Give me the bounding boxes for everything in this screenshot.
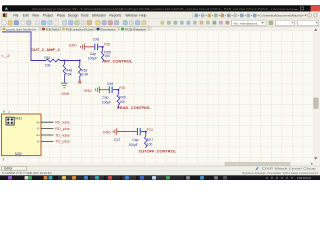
svg-text:Editor: Editor xyxy=(4,167,13,171)
svg-text:Tools: Tools xyxy=(81,14,89,18)
svg-text:100: 100 xyxy=(147,142,153,146)
svg-text:Place: Place xyxy=(57,14,66,18)
svg-text:CX8: CX8 xyxy=(93,37,100,41)
svg-text:TD_noise: TD_noise xyxy=(55,133,70,137)
svg-text:CX7: CX7 xyxy=(114,138,121,142)
svg-text:100pF: 100pF xyxy=(102,100,111,104)
svg-text:10K: 10K xyxy=(45,63,52,67)
svg-text:PCB_resistive DcLink: PCB_resistive DcLink xyxy=(66,28,93,32)
svg-text:100pF: 100pF xyxy=(88,56,97,60)
svg-text:prush_free NoiSeGe: prush_free NoiSeGe xyxy=(6,28,36,32)
svg-text:r,_2: r,_2 xyxy=(1,54,10,58)
svg-text:M32: M32 xyxy=(15,152,22,156)
svg-text:PEAK_CONTROL: PEAK_CONTROL xyxy=(117,106,151,110)
svg-text:Cap: Cap xyxy=(102,96,108,100)
svg-text:CX6: CX6 xyxy=(107,82,114,86)
svg-text:100pF: 100pF xyxy=(129,143,138,147)
svg-text:4:05 PM 6/1: 4:05 PM 6/1 xyxy=(297,176,312,180)
svg-text:10K: 10K xyxy=(66,73,73,77)
svg-text:Window: Window xyxy=(125,14,138,18)
svg-text:RX6: RX6 xyxy=(119,95,126,99)
svg-text:R54: R54 xyxy=(44,56,50,60)
svg-text:DXP Mask Level Clear: DXP Mask Level Clear xyxy=(262,167,316,171)
svg-text:PCB1.PcbDoc: PCB1.PcbDoc xyxy=(46,28,60,32)
svg-text:A+: A+ xyxy=(36,120,40,124)
svg-text:Edit: Edit xyxy=(23,14,29,18)
svg-text:PCB Release: PCB Release xyxy=(125,28,146,32)
svg-text:P25: P25 xyxy=(119,86,125,90)
svg-text:Cap: Cap xyxy=(132,138,138,142)
svg-text:K-: K- xyxy=(37,127,40,131)
svg-text:Altium Designer (Summer 09) -: Altium Designer (Summer 09) - C:\Users\k… xyxy=(32,7,294,11)
svg-text:P24: P24 xyxy=(147,128,153,132)
svg-text:GND: GND xyxy=(61,92,69,96)
svg-text:File: File xyxy=(13,14,19,18)
svg-text:GND: GND xyxy=(84,89,92,93)
svg-text:INT_CONTROL: INT_CONTROL xyxy=(104,59,133,63)
svg-text:Design: Design xyxy=(68,14,79,18)
svg-text:Help: Help xyxy=(139,14,146,18)
svg-text:RD_noise: RD_noise xyxy=(55,121,70,125)
svg-text:CUTOFF_CONTROL: CUTOFF_CONTROL xyxy=(139,149,177,153)
svg-text:X:10580.779 Y:498.437 Grid: X:10580.779 Y:498.437 Grid:10 xyxy=(2,171,52,175)
svg-text:View: View xyxy=(32,14,40,18)
svg-text:System Design Compiler SCH: System Design Compiler SCH Help Instrume… xyxy=(242,171,319,175)
svg-text:Simulator: Simulator xyxy=(92,14,107,18)
svg-text:A+: A+ xyxy=(36,133,40,137)
svg-text:3.3K: 3.3K xyxy=(81,73,89,77)
svg-text:No Variations: No Variations xyxy=(234,21,259,25)
svg-text:Reports: Reports xyxy=(109,14,121,18)
svg-text:K-: K- xyxy=(37,140,40,144)
svg-text:Project: Project xyxy=(43,14,54,18)
svg-text:P26: P26 xyxy=(104,42,110,46)
svg-text:C:\Users\Kai\Documents\Altium\: C:\Users\Kai\Documents\Altium\u4 xyxy=(260,14,304,18)
svg-text:GND: GND xyxy=(69,44,77,48)
svg-text:Devices: Devices xyxy=(100,28,116,32)
svg-text:GND: GND xyxy=(103,130,111,134)
svg-text:TD_plus: TD_plus xyxy=(55,140,70,144)
svg-text:OUT_2_AMP_2: OUT_2_AMP_2 xyxy=(31,48,60,52)
svg-text:100: 100 xyxy=(119,100,125,104)
svg-text:100: 100 xyxy=(104,54,110,58)
svg-text:RD_plus: RD_plus xyxy=(55,127,70,131)
svg-text:M31: M31 xyxy=(15,116,22,120)
svg-text:RX7: RX7 xyxy=(147,138,154,142)
